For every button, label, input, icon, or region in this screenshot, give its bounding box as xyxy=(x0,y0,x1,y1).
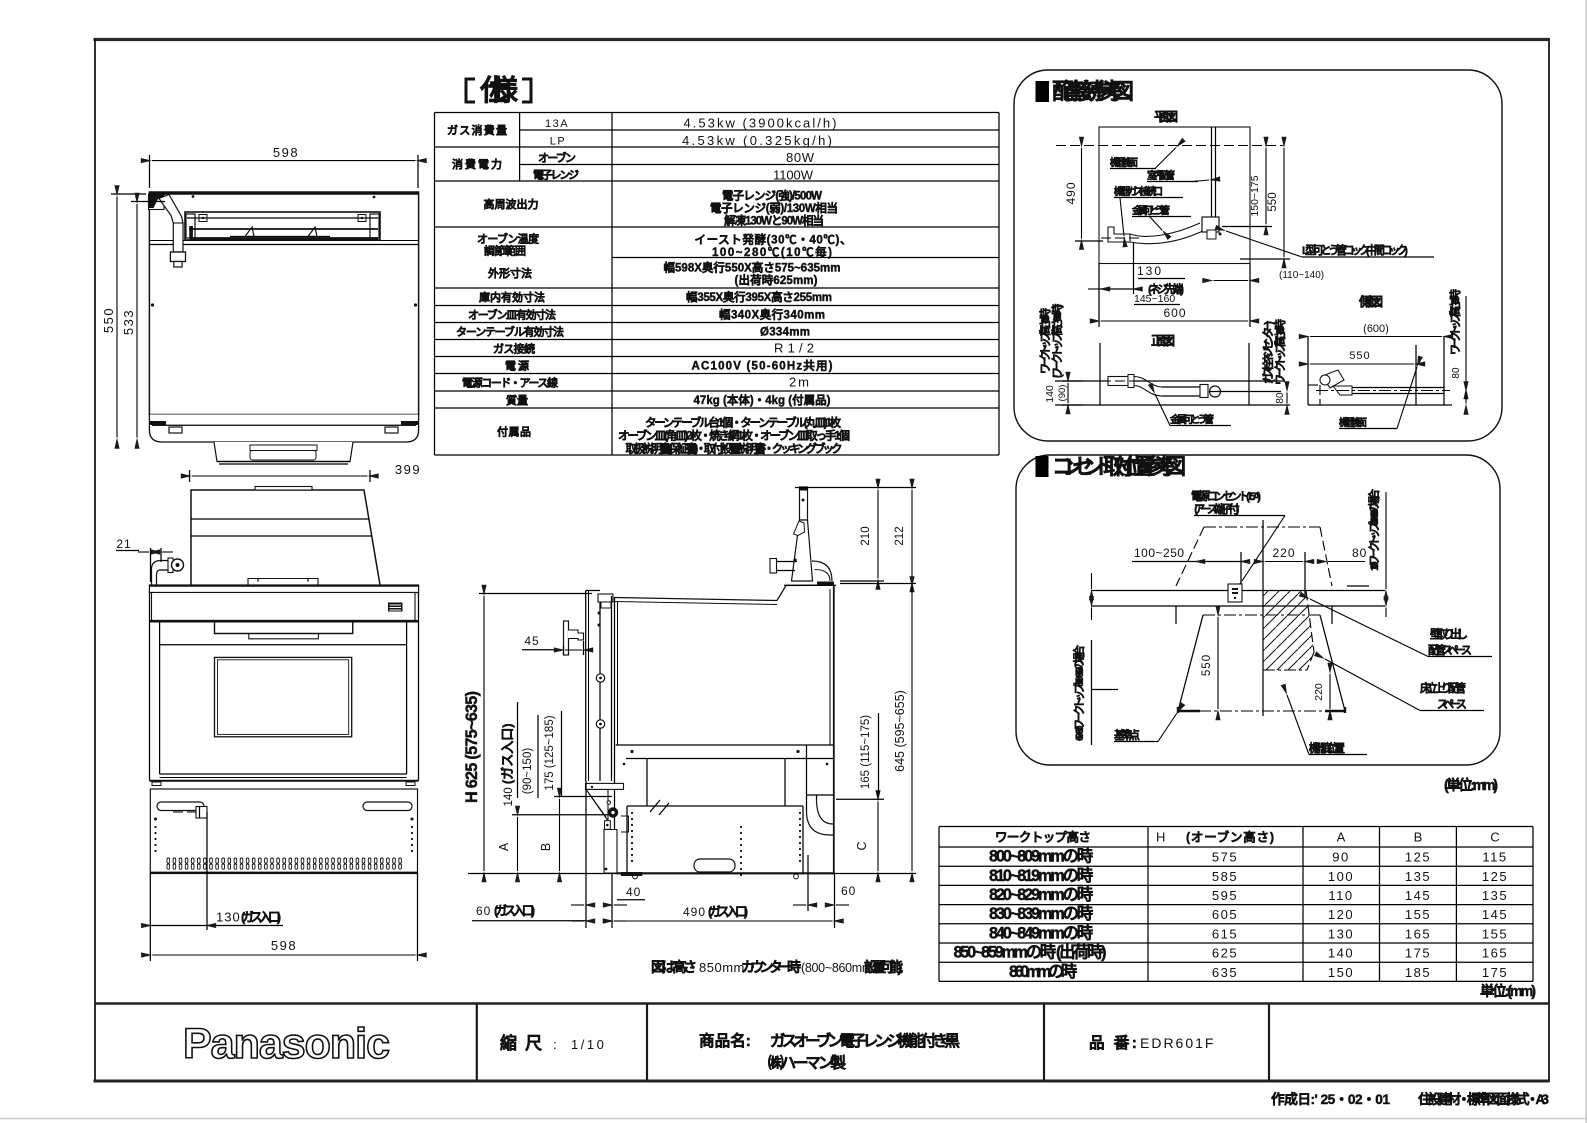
side middle section xyxy=(627,759,803,807)
svg-text:60: 60 xyxy=(476,904,491,918)
svg-text:600: 600 xyxy=(1163,306,1186,320)
svg-text:2m: 2m xyxy=(789,375,809,390)
svg-text:ワークトップ高さ850時: ワークトップ高さ850時 xyxy=(1448,289,1462,355)
spec table left labels xyxy=(447,118,579,439)
top view dim 550 xyxy=(101,194,146,438)
spec table grid xyxy=(435,113,1000,456)
side fig pipe xyxy=(1308,370,1450,405)
svg-text:イースト発酵(30℃・40℃)、: イースト発酵(30℃・40℃)、 xyxy=(695,233,852,247)
svg-text:設置可能): 設置可能) xyxy=(864,959,903,975)
side back pipe assembly top xyxy=(770,487,836,585)
svg-text:Panasonic: Panasonic xyxy=(183,1020,389,1068)
svg-text:付属品: 付属品 xyxy=(497,425,531,439)
dim 220 top xyxy=(1265,546,1305,598)
front figure label xyxy=(1151,334,1175,348)
top view body outline xyxy=(149,192,418,415)
svg-text:機器後面: 機器後面 xyxy=(1339,416,1368,429)
svg-text:850mm: 850mm xyxy=(699,960,745,975)
svg-text:オーブン皿(角皿)2枚・焼き網1枚・オーブン皿取っ手1個: オーブン皿(角皿)2枚・焼き網1枚・オーブン皿取っ手1個 xyxy=(618,429,850,443)
side figure label xyxy=(1358,294,1383,309)
front fig right labels xyxy=(1261,319,1287,404)
svg-text:幅598X奥行550X高さ575~635mm: 幅598X奥行550X高さ575~635mm xyxy=(664,261,841,275)
svg-text:175: 175 xyxy=(1482,965,1508,980)
svg-text:住設建材・標準図面様式・A3: 住設建材・標準図面様式・A3 xyxy=(1418,1091,1549,1107)
svg-text:オーブン温度: オーブン温度 xyxy=(477,232,540,246)
svg-text:100: 100 xyxy=(1328,869,1354,884)
side dot columns xyxy=(631,812,801,876)
svg-text:635: 635 xyxy=(1212,965,1238,980)
svg-text:スペース: スペース xyxy=(1437,699,1467,711)
svg-text:(90): (90) xyxy=(1057,385,1068,402)
front door tray xyxy=(215,623,353,639)
svg-text:㈱ハーマン製: ㈱ハーマン製 xyxy=(768,1053,846,1072)
front dim 598 bottom xyxy=(150,874,417,961)
svg-text:壁取り出し: 壁取り出し xyxy=(1430,627,1468,641)
front dot columns xyxy=(154,818,414,853)
side fig right labels xyxy=(1448,289,1466,404)
svg-text:電源コンセント (15A): 電源コンセント (15A) xyxy=(1191,489,1261,503)
plan dim 600 xyxy=(1101,306,1248,321)
svg-text:機器後面: 機器後面 xyxy=(1110,156,1139,169)
side dim 165 xyxy=(836,713,884,871)
svg-text:80: 80 xyxy=(1352,546,1367,560)
svg-text:115: 115 xyxy=(1482,850,1507,865)
plan back wall dashed line xyxy=(1056,145,1283,147)
box2 title xyxy=(1036,454,1187,479)
svg-text:(600): (600) xyxy=(1363,323,1389,335)
svg-text:598: 598 xyxy=(271,938,297,953)
outlet box xyxy=(1228,552,1242,602)
svg-text:145~160: 145~160 xyxy=(1134,293,1175,305)
svg-text:幅355X奥行395X高さ255mm: 幅355X奥行395X高さ255mm xyxy=(686,290,832,304)
svg-text:165: 165 xyxy=(1482,946,1508,961)
unit mm box1 xyxy=(1444,776,1498,794)
plan dim 130 xyxy=(1088,243,1185,294)
side dim 210 xyxy=(795,488,916,582)
box1 title xyxy=(1036,79,1135,104)
side dim 212 xyxy=(840,490,916,584)
plan dim 550 xyxy=(1240,148,1290,259)
svg-text:作成日:' 25・02・01: 作成日:' 25・02・01 xyxy=(1271,1091,1390,1107)
svg-text:ワークトップ高さ: ワークトップ高さ xyxy=(995,830,1091,845)
unit bottom position label xyxy=(1287,695,1367,755)
footer date and format xyxy=(1271,1091,1549,1107)
svg-text:550: 550 xyxy=(1349,350,1370,362)
svg-text:550: 550 xyxy=(1201,654,1213,676)
svg-text:40: 40 xyxy=(626,885,641,899)
svg-text:575: 575 xyxy=(1212,850,1238,865)
side bottom ext lines xyxy=(586,781,835,928)
side body outline xyxy=(614,585,834,875)
front fig lines xyxy=(1055,343,1290,405)
worktop table header xyxy=(995,830,1500,845)
svg-text:室内配管: 室内配管 xyxy=(1147,169,1175,182)
svg-text:800~809mmの時: 800~809mmの時 xyxy=(989,847,1093,866)
top view slide-out tray xyxy=(214,442,353,464)
plan dim (110~140) xyxy=(1214,270,1325,281)
plan figure label xyxy=(1154,110,1178,124)
side hinge bracket lower left xyxy=(586,783,670,876)
svg-text:金属可とう管: 金属可とう管 xyxy=(1131,204,1170,217)
svg-text:B: B xyxy=(539,843,553,851)
side dim 40 xyxy=(571,885,645,905)
dim 550 box2 xyxy=(1201,617,1218,709)
svg-text:150: 150 xyxy=(1328,965,1354,980)
front fig left labels xyxy=(1038,304,1083,405)
svg-text:145: 145 xyxy=(1482,907,1508,922)
svg-text:ワークトップ高さ850時: ワークトップ高さ850時 xyxy=(1273,319,1287,385)
side knob 45 xyxy=(564,621,584,655)
svg-text:860mmの時: 860mmの時 xyxy=(1009,962,1077,981)
scale cell text xyxy=(500,1033,606,1053)
side fig back label xyxy=(1339,367,1417,429)
center line vertical xyxy=(1262,520,1264,716)
datum point label xyxy=(1113,713,1177,742)
svg-text:(アース端子付): (アース端子付) xyxy=(1194,502,1240,516)
svg-text:電子レンジ(強)/500W: 電子レンジ(強)/500W xyxy=(722,189,822,203)
front side columns xyxy=(150,593,419,781)
svg-text:840~849mmの時: 840~849mmの時 xyxy=(989,923,1093,942)
svg-text:機器ガス接続口: 機器ガス接続口 xyxy=(1114,185,1163,198)
svg-text:コンセント取付位置参考図: コンセント取付位置参考図 xyxy=(1052,454,1186,479)
svg-text:110: 110 xyxy=(1328,888,1353,903)
front base panel xyxy=(150,789,417,874)
svg-text:(ガス入口): (ガス入口) xyxy=(708,904,748,919)
box1 rounded border xyxy=(1014,70,1502,441)
svg-text:カウンター時: カウンター時 xyxy=(741,959,801,975)
side dim 490 gas inlet xyxy=(614,904,833,921)
side dim 60 gas inlet xyxy=(472,903,626,921)
dim 80 box2 xyxy=(1328,546,1367,562)
svg-text:(ガス栓ネジセンター): (ガス栓ネジセンター) xyxy=(1261,320,1275,384)
svg-text:ガス消費量: ガス消費量 xyxy=(447,123,507,137)
part number cell xyxy=(1089,1033,1215,1052)
svg-text:125: 125 xyxy=(1405,850,1431,865)
svg-text:図は高さ: 図は高さ xyxy=(651,959,697,975)
Panasonic logo (outlined) xyxy=(183,1020,389,1068)
svg-text:(オーブン高さ): (オーブン高さ) xyxy=(1186,830,1274,845)
svg-text:電子レンジ(弱)/130W相当: 電子レンジ(弱)/130W相当 xyxy=(710,201,838,215)
svg-text:ワークトップ高さ850時: ワークトップ高さ850時 xyxy=(1038,308,1052,374)
top view surface dots xyxy=(151,195,417,419)
side dim 60 right xyxy=(793,884,856,905)
svg-text:ターンテーブル有効寸法: ターンテーブル有効寸法 xyxy=(456,325,564,339)
svg-text:オーブン皿有効寸法: オーブン皿有効寸法 xyxy=(468,308,556,322)
svg-text:外形寸法: 外形寸法 xyxy=(487,266,532,280)
side back bottom elbow xyxy=(807,745,834,835)
svg-text:100~250: 100~250 xyxy=(1134,546,1185,560)
svg-text:550: 550 xyxy=(1267,192,1279,211)
top view dim 533 xyxy=(121,202,165,438)
svg-text:490: 490 xyxy=(1064,181,1078,204)
svg-text:60: 60 xyxy=(841,884,856,898)
svg-text:155: 155 xyxy=(1405,907,1431,922)
wall pipe space label xyxy=(1310,599,1492,657)
svg-text:高周波出力: 高周波出力 xyxy=(484,197,539,211)
plan counter rect xyxy=(1099,127,1250,327)
svg-text:140 (ガス入口): 140 (ガス入口) xyxy=(500,723,515,806)
plan dim 145~160 xyxy=(1134,282,1184,305)
front dim 21 xyxy=(116,537,173,582)
svg-text:625: 625 xyxy=(1212,946,1238,961)
side dim 645 xyxy=(893,588,912,872)
svg-text:60~80 ワークトップ800~860の場合: 60~80 ワークトップ800~860の場合 xyxy=(1072,644,1086,741)
unit bottom trapezoid xyxy=(1176,606,1345,713)
svg-text:145: 145 xyxy=(1405,888,1431,903)
svg-text:80: 80 xyxy=(1275,392,1286,404)
svg-text:配管スペース: 配管スペース xyxy=(1428,643,1472,657)
svg-text:正面図: 正面図 xyxy=(1151,334,1175,348)
svg-text:150~175: 150~175 xyxy=(1249,175,1261,216)
plan flexible pipe drawing xyxy=(1101,217,1222,244)
front door and window xyxy=(149,645,418,786)
svg-text:(800~860mm: (800~860mm xyxy=(801,961,872,975)
svg-text:L型可とう管コック (中間コック): L型可とう管コック (中間コック) xyxy=(1302,243,1408,257)
svg-text:LP: LP xyxy=(550,136,566,148)
svg-text:Ø334mm: Ø334mm xyxy=(760,327,810,339)
svg-text:135: 135 xyxy=(1482,888,1508,903)
svg-text:(ワークトップ高さ800時): (ワークトップ高さ800時) xyxy=(1050,304,1064,379)
svg-text:80: 80 xyxy=(1451,367,1462,379)
side dim 175 label xyxy=(544,711,562,796)
right rotated label 100 worktop xyxy=(1347,488,1386,617)
svg-text:幅340X奥行340mm: 幅340X奥行340mm xyxy=(719,308,825,322)
svg-text:(ガス入口): (ガス入口) xyxy=(494,903,535,918)
title block xyxy=(95,1004,1549,1082)
svg-text:庫内有効寸法: 庫内有効寸法 xyxy=(479,290,545,304)
svg-text:AC100V (50-60Hz共用): AC100V (50-60Hz共用) xyxy=(692,359,833,373)
top view gas pipe xyxy=(149,194,186,267)
svg-text:H 625 (575~635): H 625 (575~635) xyxy=(463,691,481,803)
side fig dims xyxy=(1308,323,1452,405)
spec title 仕様 xyxy=(466,75,531,107)
svg-text:533: 533 xyxy=(121,309,136,335)
svg-text:830~839mmの時: 830~839mmの時 xyxy=(989,904,1093,923)
svg-text:120: 120 xyxy=(1328,907,1354,922)
svg-text:側面図: 側面図 xyxy=(1358,294,1383,309)
svg-text:595: 595 xyxy=(1212,888,1238,903)
front vent slots xyxy=(167,858,401,869)
worktop height table grid xyxy=(939,827,1533,982)
svg-text:金属可とう管: 金属可とう管 xyxy=(1169,413,1214,426)
front fig pipe xyxy=(1101,375,1281,398)
svg-text:電源コード・アース線: 電源コード・アース線 xyxy=(462,376,558,390)
svg-text:80W: 80W xyxy=(786,150,815,165)
top view dim 399 xyxy=(190,462,422,482)
svg-text:ガス接続: ガス接続 xyxy=(493,342,535,356)
floor riser pipe space label xyxy=(1325,659,1484,711)
left rotated label 60~80 worktop xyxy=(1072,573,1118,745)
side dim H 625 xyxy=(463,594,592,872)
side dim 140 gas label xyxy=(500,702,538,807)
spec table values xyxy=(618,116,852,456)
svg-text:縮 尺: 縮 尺 xyxy=(500,1033,542,1053)
svg-text:90: 90 xyxy=(1332,850,1349,865)
svg-text:605: 605 xyxy=(1212,907,1238,922)
side dim 45 xyxy=(522,634,584,655)
svg-text:210: 210 xyxy=(860,526,872,545)
front gas inlet fitting xyxy=(173,807,207,931)
svg-text:45: 45 xyxy=(524,634,539,648)
outlet label xyxy=(1191,489,1285,581)
plan dim 490 xyxy=(1064,148,1103,241)
svg-text:(110~140): (110~140) xyxy=(1279,270,1324,281)
svg-text:21: 21 xyxy=(116,537,131,551)
plan dim 150~175 xyxy=(1222,148,1272,227)
svg-text:615: 615 xyxy=(1212,926,1238,941)
svg-text:(出荷時625mm): (出荷時625mm) xyxy=(735,273,818,287)
svg-text:47kg (本体)・4kg (付属品): 47kg (本体)・4kg (付属品) xyxy=(694,393,831,407)
side oven bottom band xyxy=(616,745,834,765)
top view burner assembly xyxy=(185,212,380,240)
box2 rounded border xyxy=(1016,455,1500,765)
svg-text:電子レンジ: 電子レンジ xyxy=(533,169,579,182)
unit mm note xyxy=(1480,982,1536,1000)
plan leader labels xyxy=(1110,148,1434,258)
svg-text:550: 550 xyxy=(101,307,116,333)
svg-text:220: 220 xyxy=(1313,683,1325,701)
svg-text:585: 585 xyxy=(1212,869,1238,884)
svg-text:床立上り配管: 床立上り配管 xyxy=(1420,681,1466,695)
svg-text:130: 130 xyxy=(1328,926,1354,941)
svg-text:1100W: 1100W xyxy=(773,168,814,183)
svg-text:配管接続参考図: 配管接続参考図 xyxy=(1052,79,1134,104)
svg-text:130: 130 xyxy=(1137,264,1163,278)
front fig flexible pipe label xyxy=(1155,394,1231,426)
counter trapezoid top xyxy=(1176,527,1332,586)
side door column xyxy=(586,591,613,782)
svg-text:220: 220 xyxy=(1272,546,1295,560)
dim 100~250 xyxy=(1132,546,1241,562)
svg-text:商品名:: 商品名: xyxy=(699,1031,751,1050)
front counter band xyxy=(149,585,418,593)
front hood xyxy=(191,487,380,586)
svg-text:399: 399 xyxy=(395,462,421,477)
svg-text:基準点: 基準点 xyxy=(1113,728,1140,742)
front gas elbow pipe xyxy=(152,558,184,585)
top view bottom band xyxy=(149,415,419,443)
plan indoor pipe vertical xyxy=(1212,127,1216,218)
svg-text:140: 140 xyxy=(1044,385,1056,403)
side floor line xyxy=(468,873,916,875)
svg-text:A: A xyxy=(497,842,511,851)
svg-text:175 (125~185): 175 (125~185) xyxy=(544,715,556,790)
svg-text:125: 125 xyxy=(1482,869,1508,884)
svg-text:H: H xyxy=(1156,830,1165,845)
svg-text:平面図: 平面図 xyxy=(1154,110,1178,124)
side dim A xyxy=(497,815,608,871)
side dim B xyxy=(539,797,612,872)
side caption counter note xyxy=(651,959,903,975)
svg-text:仕 様: 仕 様 xyxy=(479,75,522,107)
svg-text:130: 130 xyxy=(216,910,241,925)
svg-text:598: 598 xyxy=(273,145,299,160)
svg-text:C: C xyxy=(855,841,869,850)
svg-text:165: 165 xyxy=(1405,926,1431,941)
worktop table rows xyxy=(954,847,1509,981)
svg-text:212: 212 xyxy=(894,526,906,545)
svg-text:(単位:mm): (単位:mm) xyxy=(1444,776,1498,794)
svg-text:EDR601F: EDR601F xyxy=(1140,1035,1215,1051)
svg-text::: : xyxy=(553,1037,557,1052)
svg-text:820~829mmの時: 820~829mmの時 xyxy=(989,885,1093,904)
svg-text:490: 490 xyxy=(683,905,706,919)
dim 220 bottom box2 xyxy=(1313,674,1330,709)
svg-text:単位:(mm): 単位:(mm) xyxy=(1480,982,1536,1000)
front dim 130 gas inlet xyxy=(150,910,283,926)
svg-text:オーブン: オーブン xyxy=(538,151,576,165)
wall band lines xyxy=(1091,591,1385,607)
svg-text:175: 175 xyxy=(1405,946,1431,961)
svg-text:850~859mmの時 (出荷時): 850~859mmの時 (出荷時) xyxy=(954,943,1107,962)
svg-text:100ワークトップ800~860の場合: 100ワークトップ800~860の場合 xyxy=(1367,488,1381,571)
svg-text:ターンテーブル台1個・ターンテーブル(丸皿)1枚: ターンテーブル台1個・ターンテーブル(丸皿)1枚 xyxy=(645,416,842,430)
svg-text:取扱説明書(保証書)・取付設置説明書・クッキングブック: 取扱説明書(保証書)・取付設置説明書・クッキングブック xyxy=(626,442,843,456)
svg-text:645 (595~655): 645 (595~655) xyxy=(893,690,907,772)
svg-text:(90~150): (90~150) xyxy=(522,748,534,795)
front control panel xyxy=(149,593,418,622)
svg-text:165 (115~175): 165 (115~175) xyxy=(860,715,872,789)
side base panel xyxy=(617,806,833,879)
svg-text:155: 155 xyxy=(1482,926,1508,941)
svg-text:調節範囲: 調節範囲 xyxy=(484,244,526,258)
svg-text:ガスオーブン電子レンジ機能付き黒: ガスオーブン電子レンジ機能付き黒 xyxy=(770,1031,960,1050)
svg-text:B: B xyxy=(1414,830,1423,845)
svg-text:1/10: 1/10 xyxy=(571,1037,606,1052)
svg-text:C: C xyxy=(1490,830,1499,845)
svg-text:140: 140 xyxy=(1328,946,1354,961)
svg-text:185: 185 xyxy=(1405,965,1431,980)
svg-text:(ガス入口): (ガス入口) xyxy=(241,910,281,925)
hatched pipe space xyxy=(1263,591,1314,671)
svg-text:解凍130Wと90W相当: 解凍130Wと90W相当 xyxy=(724,214,824,228)
svg-text:R1/2: R1/2 xyxy=(774,341,814,356)
top view dim 598 xyxy=(150,145,419,188)
svg-text:810~819mmの時: 810~819mmの時 xyxy=(989,866,1093,885)
svg-text:A: A xyxy=(1337,830,1346,845)
svg-text:質量: 質量 xyxy=(506,393,528,407)
svg-text:機器底位置: 機器底位置 xyxy=(1309,741,1345,755)
svg-text:13A: 13A xyxy=(545,118,569,130)
svg-text:135: 135 xyxy=(1405,869,1431,884)
product name cell xyxy=(699,1031,960,1072)
